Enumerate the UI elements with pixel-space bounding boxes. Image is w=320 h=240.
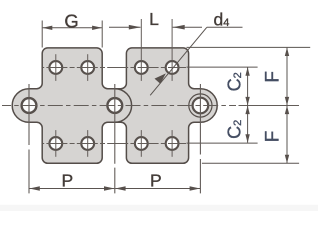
F bottom extension line: [202, 162, 299, 164]
C2 upper arrow down: [245, 97, 249, 106]
pin 1 circle: [22, 98, 37, 113]
L arrow left pointing right: [129, 25, 141, 30]
P2 arrow right: [190, 186, 201, 191]
hole crosshair vertical plate1 bottom-right: [87, 130, 89, 157]
bottom gray strip: [0, 205, 318, 211]
C2 lower arrow up: [245, 106, 249, 115]
hole crosshair verticals plate1: [55, 54, 57, 81]
svg-text:L: L: [149, 9, 159, 29]
attachment hole plate2 bottom-left: [135, 137, 148, 150]
main horizontal centerline: [2, 105, 236, 107]
L arrow right pointing left: [173, 25, 185, 30]
C2 upper dimension line: [247, 67, 249, 105]
P2 arrow left: [115, 186, 126, 191]
L dimension line left (outside arrow): [109, 26, 141, 28]
hole crosshair vertical plate1 top-right: [87, 54, 89, 81]
C2 lower dimension line: [247, 106, 249, 143]
pin 3 vertical centerline: [199, 84, 201, 193]
svg-text:G: G: [64, 10, 78, 31]
F lower arrow up: [285, 106, 289, 115]
hole crosshair vertical plate2 bottom-right: [171, 130, 173, 157]
hole crosshair verticals plate2 top (extended to L dimension): [140, 19, 142, 81]
top row extension line (C2): [187, 66, 258, 68]
bottom hole-row centerline: [43, 143, 186, 145]
pin 2 circle: [107, 98, 122, 113]
F upper arrow down: [285, 97, 289, 106]
bottom row extension line (C2): [187, 142, 258, 144]
pin 2 vertical centerline: [114, 84, 116, 193]
F upper dimension line: [286, 48, 288, 106]
G arrow right: [92, 26, 102, 30]
top hole-row centerline: [43, 67, 186, 69]
G arrow left: [42, 26, 52, 30]
svg-text:P: P: [62, 170, 74, 190]
attachment hole plate2 bottom-right: [166, 137, 179, 150]
G extension line right: [101, 21, 103, 48]
hole crosshair vertical plate2 bottom-left: [140, 130, 142, 157]
pin 3 inner circle: [193, 98, 209, 114]
F top extension line: [187, 46, 311, 48]
pin 1 vertical centerline: [28, 84, 30, 193]
L dimension line right (outside arrow): [173, 26, 202, 28]
F upper arrow up: [285, 48, 289, 57]
svg-text:F: F: [263, 71, 284, 83]
hole crosshair vertical plate2 top-right / L extension: [171, 19, 173, 81]
svg-text:F: F: [263, 131, 284, 143]
attachment hole plate1 bottom-right: [81, 137, 94, 150]
P dimension line 1: [29, 188, 114, 190]
P1 arrow left: [29, 186, 40, 191]
d4 leader landing line: [207, 26, 243, 28]
attachment hole plate1 top-right: [81, 61, 94, 74]
F lower arrow down: [285, 155, 289, 164]
attachment hole plate1 bottom-left: [49, 137, 62, 150]
pin 2 lobe arc (middle joint): [115, 89, 132, 123]
d4 leader diagonal: [150, 27, 207, 95]
G dimension extension lines: [41, 21, 43, 48]
F lower dimension line: [286, 106, 288, 163]
P dimension line 2: [115, 188, 200, 190]
d4 leader arrowhead: [155, 73, 166, 83]
main horizontal centerline right solid segment: [239, 105, 300, 107]
hole crosshair vertical plate1 bottom-left: [55, 130, 57, 157]
attachment hole plate2 top-left: [135, 61, 148, 74]
chain link plates silhouette (two attachment plates with pin lobes): [12, 48, 217, 163]
C2 lower arrow down: [245, 134, 249, 143]
attachment hole plate1 top-left: [49, 61, 62, 74]
G dimension line: [43, 27, 102, 29]
svg-text:P: P: [150, 170, 162, 190]
P1 arrow right: [104, 186, 115, 191]
pin 3 bush outer circle: [189, 94, 212, 117]
C2 upper arrow up: [245, 67, 249, 76]
attachment hole plate2 top-right (d4): [166, 61, 179, 74]
